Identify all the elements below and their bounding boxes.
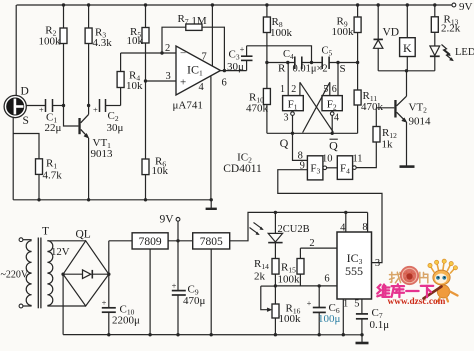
regulator 7805 xyxy=(193,233,230,335)
transistor VT1 9013 xyxy=(78,106,113,200)
ground symbol (signal) xyxy=(206,200,217,209)
capacitor C5 0.01u xyxy=(293,46,333,75)
wire cross-coupling F1 out to F2 in xyxy=(303,82,330,132)
svg-text:+: + xyxy=(180,77,186,89)
svg-text:9014: 9014 xyxy=(409,116,432,128)
svg-text:+: + xyxy=(93,104,98,114)
svg-text:2: 2 xyxy=(165,43,170,54)
svg-text:0.1μ: 0.1μ xyxy=(370,319,390,331)
svg-text:+: + xyxy=(240,44,245,54)
wire mic output xyxy=(26,105,46,107)
svg-text:100μ: 100μ xyxy=(318,313,341,325)
svg-text:D: D xyxy=(21,86,29,98)
node collector junction xyxy=(87,104,90,107)
svg-text:4.7k: 4.7k xyxy=(43,170,63,182)
svg-text:10k: 10k xyxy=(126,80,143,92)
svg-text:2.2k: 2.2k xyxy=(441,23,461,35)
wire bridge plus column xyxy=(108,241,110,307)
svg-text:3: 3 xyxy=(166,71,171,82)
svg-text:Q: Q xyxy=(329,139,338,153)
svg-text:VD: VD xyxy=(383,27,400,39)
capacitor C6 100u xyxy=(307,286,341,335)
electret microphone B (D/S) xyxy=(4,86,29,128)
wire R-S line xyxy=(265,61,359,75)
wire cross-coupling F2 out to F1 in xyxy=(300,82,333,132)
svg-text:9: 9 xyxy=(300,160,305,171)
svg-text:7: 7 xyxy=(202,52,207,63)
svg-text:3: 3 xyxy=(284,113,289,124)
svg-text:2CU2B: 2CU2B xyxy=(278,224,310,235)
transformer T 220V/12V xyxy=(1,226,70,309)
resistor R13 2.2k xyxy=(431,5,460,46)
svg-text:~220V: ~220V xyxy=(1,270,29,281)
wire pin 7 to 9V xyxy=(211,5,213,66)
resistor R7 1M feedback xyxy=(162,13,224,71)
wire inverting input (pin 2) xyxy=(121,43,176,55)
svg-text:+: + xyxy=(307,298,312,308)
svg-text:4.3k: 4.3k xyxy=(93,37,113,49)
svg-text:+: + xyxy=(102,298,107,308)
svg-text:100k: 100k xyxy=(278,274,301,286)
svg-text:CD4011: CD4011 xyxy=(223,163,262,175)
resistor R10 470k xyxy=(246,63,270,134)
svg-text:6: 6 xyxy=(222,78,227,89)
svg-text:+: + xyxy=(172,281,177,291)
wire F3 out to F4 in xyxy=(327,167,338,169)
wire relay bottom line xyxy=(378,69,435,72)
bridge rectifier QL xyxy=(61,229,110,307)
svg-text:10: 10 xyxy=(322,154,333,165)
node Q-bar xyxy=(329,139,338,153)
capacitor C2 30u xyxy=(93,99,123,134)
svg-text:T: T xyxy=(42,226,49,238)
svg-text:470k: 470k xyxy=(246,103,269,115)
wire F3 pin 9 loop to 555 pin 3 xyxy=(278,160,382,262)
gate F1 (IC2a) xyxy=(280,63,303,134)
resistor R5 10k xyxy=(127,5,150,81)
svg-text:7809: 7809 xyxy=(139,236,162,248)
resistor R15 100k xyxy=(278,248,305,286)
svg-text:www.dzsc.com: www.dzsc.com xyxy=(388,297,446,307)
svg-text:470k: 470k xyxy=(361,101,384,113)
capacitor C4 0.01u xyxy=(283,49,302,69)
capacitor C9 470u xyxy=(172,241,206,335)
svg-text:5: 5 xyxy=(354,299,359,310)
resistor R6 10k xyxy=(142,81,169,200)
svg-text:−: − xyxy=(180,48,186,60)
gate F2 (IC2b) xyxy=(322,63,342,134)
wire mic source to ground xyxy=(13,117,39,200)
svg-text:7805: 7805 xyxy=(200,236,223,248)
svg-text:4: 4 xyxy=(340,223,346,234)
svg-text:2200μ: 2200μ xyxy=(112,315,140,327)
svg-text:555: 555 xyxy=(345,264,363,278)
timer IC3 555 xyxy=(337,212,380,309)
ground symbol (power) xyxy=(356,335,369,343)
svg-text:Q: Q xyxy=(280,136,289,150)
wire bridge minus to ground rail xyxy=(62,274,64,334)
svg-text:10k: 10k xyxy=(127,35,144,47)
svg-text:1k: 1k xyxy=(382,139,394,151)
wire C3 to latch midpoint xyxy=(247,46,312,63)
svg-text:2: 2 xyxy=(309,238,314,249)
svg-text:LED: LED xyxy=(455,47,474,58)
wire pin 4 to ground xyxy=(210,76,212,200)
svg-text:470μ: 470μ xyxy=(183,295,206,307)
node base junction xyxy=(62,104,65,107)
wire R14/R15 junction line to 555 pin 6 xyxy=(274,274,337,288)
svg-text:9V: 9V xyxy=(459,1,473,13)
resistor R2 100k xyxy=(39,5,68,106)
svg-text:12V: 12V xyxy=(51,246,70,258)
svg-text:30μ: 30μ xyxy=(107,122,124,134)
svg-text:R: R xyxy=(278,63,286,75)
resistor R11 470k xyxy=(354,63,383,134)
svg-text:R7 1M: R7 1M xyxy=(178,13,207,27)
capacitor C1 22u xyxy=(39,99,64,134)
resistor R14 2k xyxy=(254,258,279,286)
wire non-inverting input (pin 3) xyxy=(144,71,176,83)
wire 9V top rail xyxy=(17,3,453,6)
resistor R9 100k xyxy=(332,5,362,63)
svg-text:9V: 9V xyxy=(160,214,175,226)
svg-text:3: 3 xyxy=(375,258,380,269)
resistor R8 100k xyxy=(263,5,292,63)
svg-text:6: 6 xyxy=(332,84,337,95)
svg-text:100k: 100k xyxy=(279,313,302,325)
gate F4 (IC2d) xyxy=(337,154,362,180)
ground VT2 emitter xyxy=(400,165,415,168)
svg-text:QL: QL xyxy=(76,229,91,241)
wire 7805 output to 555 xyxy=(230,211,368,241)
svg-text:2k: 2k xyxy=(254,271,266,283)
wire mic drain to rail xyxy=(15,5,17,96)
wire signal ground rail xyxy=(13,198,213,201)
capacitor C3 30u xyxy=(227,44,253,73)
watermark dzsc logo xyxy=(377,259,457,307)
wire bridge to 7809 xyxy=(109,240,132,242)
wire Q line xyxy=(267,132,358,135)
wire power ground rail xyxy=(63,333,364,336)
svg-text:30μ: 30μ xyxy=(227,61,244,73)
photodiode 2CU2B xyxy=(250,212,310,258)
resistor R12 1k xyxy=(373,108,397,151)
wire 7809 to 7805 xyxy=(168,239,193,242)
wire base of VT1 xyxy=(64,106,79,127)
wire 555 pin 2 line xyxy=(300,238,337,249)
resistor R4 10k xyxy=(117,53,143,106)
svg-text:4: 4 xyxy=(199,82,205,93)
svg-text:6: 6 xyxy=(324,274,329,285)
svg-text:10k: 10k xyxy=(152,165,169,177)
svg-text:100k: 100k xyxy=(39,36,62,48)
wire 555 pin 1 to ground xyxy=(342,299,344,335)
node 9V terminal (mid) xyxy=(160,214,180,241)
svg-text:100k: 100k xyxy=(332,26,355,38)
svg-text:1: 1 xyxy=(280,84,285,95)
svg-text:9013: 9013 xyxy=(91,148,114,160)
capacitor C7 0.1u xyxy=(356,299,389,335)
op-amp IC1 uA741 xyxy=(173,46,227,112)
label IC2 CD4011 xyxy=(223,152,262,176)
svg-text:11: 11 xyxy=(352,154,362,165)
svg-text:+: + xyxy=(39,104,44,114)
svg-text:μA741: μA741 xyxy=(173,100,203,112)
wire Q to F3 pin 8 xyxy=(293,133,308,161)
resistor R3 4.3k xyxy=(85,5,112,106)
svg-text:0.01μ×2: 0.01μ×2 xyxy=(293,63,328,74)
svg-text:22μ: 22μ xyxy=(45,122,62,134)
svg-text:4: 4 xyxy=(334,113,339,124)
svg-text:S: S xyxy=(340,63,346,75)
transistor VT2 9014 xyxy=(394,71,431,166)
capacitor C10 2200u xyxy=(102,298,140,335)
LED xyxy=(430,45,474,71)
node 9V terminal (top right) xyxy=(452,1,473,13)
wire op-amp output xyxy=(221,69,247,72)
gate F3 (IC2c) xyxy=(307,154,332,180)
svg-text:2: 2 xyxy=(291,84,296,95)
potentiometer R16 100k xyxy=(261,286,301,335)
svg-text:8: 8 xyxy=(362,222,367,233)
svg-text:100k: 100k xyxy=(270,27,293,39)
node Q xyxy=(280,136,289,150)
relay K xyxy=(400,5,416,71)
resistor R1 4.7k xyxy=(36,158,63,200)
wire secondary to bridge xyxy=(47,241,85,306)
svg-text:S: S xyxy=(23,115,29,127)
regulator 7809 xyxy=(132,233,168,335)
diode VD xyxy=(374,5,400,71)
wire F4 out to R12 xyxy=(356,142,376,168)
svg-text:K: K xyxy=(403,41,412,55)
